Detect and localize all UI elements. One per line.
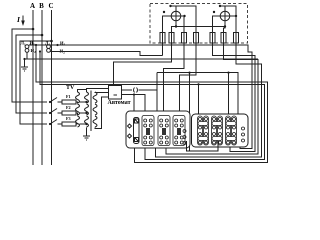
terminal groups box1: [142, 116, 186, 146]
junction bus A tap: [32, 28, 35, 31]
wire coil1 down: [162, 43, 164, 56]
wire TV sec2 to breaker: [95, 91, 109, 94]
meter case dashed: [150, 4, 248, 44]
mount hole 2: [128, 134, 132, 138]
junction CT2 I1: [56, 44, 58, 46]
wire box2 drops: [198, 84, 200, 136]
inner strip: [134, 118, 140, 144]
wire TV sec1 to breaker: [87, 89, 109, 93]
ground CT: [21, 66, 28, 68]
wire coil7 down: [156, 43, 262, 157]
meter internal wires element1: [163, 16, 170, 33]
TV neutral stubs: [80, 101, 87, 103]
wire voltage P2: [40, 52, 265, 160]
svg-text:F3: F3: [66, 116, 71, 121]
meter coil 1: [160, 33, 165, 44]
wire coil6 down: [166, 43, 258, 155]
svg-text:F2: F2: [66, 105, 71, 110]
wire fuse2 to TV: [76, 113, 78, 116]
wire to ground CT: [24, 59, 26, 67]
terminal group 1 box1: [142, 116, 154, 146]
CT2 secondary winding: [47, 45, 51, 49]
wire breaker out 1b: [139, 90, 158, 120]
wire tap B: [16, 35, 47, 113]
wire fuse3 to TV: [76, 123, 78, 125]
wire coil5 down: [213, 43, 256, 152]
meter element 2: [220, 11, 230, 21]
svg-text:И2: И2: [31, 48, 37, 54]
ground TV: [83, 135, 90, 137]
meter coil 7: [234, 33, 239, 44]
wire coil3 down: [164, 43, 185, 129]
wire fuse1 to TV: [76, 102, 78, 104]
TV winding column 2: [85, 92, 89, 127]
terminal group 1 box2: [198, 116, 209, 145]
wire breaker out 1: [122, 89, 133, 91]
terminal group 2 box2: [212, 116, 223, 145]
junction P1: [35, 44, 37, 46]
switch S2: [50, 109, 57, 114]
wire breaker out 2: [122, 95, 146, 129]
svg-text:F1: F1: [66, 94, 71, 99]
connector: [134, 88, 138, 93]
wire common I2 grounded: [25, 58, 259, 60]
terminal group 3 box1: [173, 116, 185, 146]
TV primary top stub: [78, 90, 87, 93]
junction TV n1: [85, 101, 87, 103]
wire CT1 I2 down: [26, 52, 28, 59]
terminal group 2 box1: [158, 116, 170, 146]
svg-text:TV: TV: [66, 85, 75, 91]
test box 2: [192, 114, 249, 147]
wire breaker out 2 branch: [133, 95, 135, 118]
switch S3: [50, 120, 57, 125]
fuse F2: [62, 111, 76, 115]
meter coil 4: [194, 33, 199, 44]
CT1 secondary winding: [25, 45, 29, 49]
fuse F1: [62, 100, 76, 104]
TV winding column 1: [76, 92, 80, 127]
meter element 1: [171, 11, 181, 21]
junction bus B tap: [41, 34, 44, 37]
junction I2: [23, 58, 25, 60]
wire coil2 down: [114, 43, 172, 86]
wire voltage P1: [36, 45, 268, 163]
wire CT1 I1 long: [29, 45, 252, 149]
junction breaker out 2: [133, 93, 135, 95]
wire mid horizontal: [157, 73, 238, 136]
bus A wire: [32, 10, 34, 165]
meter coil 5: [210, 33, 215, 44]
terminal group 3 box2: [226, 116, 237, 145]
svg-text:B: B: [39, 2, 44, 10]
wire CT2 I1 long: [51, 52, 163, 56]
test box 1: [126, 111, 190, 148]
wire mid branch down: [228, 73, 230, 136]
wire bottom bridge: [187, 141, 219, 151]
TV winding column 3: [93, 92, 97, 127]
breaker box: [109, 86, 122, 100]
box1 right terminals: [183, 130, 186, 133]
meter coil 2: [169, 33, 174, 44]
wire tap C: [20, 41, 52, 124]
fuse F3: [62, 122, 76, 126]
junction P2: [39, 50, 41, 52]
junction bus C tap: [50, 40, 53, 43]
wire coil4 down: [180, 43, 197, 129]
wire TV sec2 return: [95, 97, 109, 129]
mount hole 1: [128, 124, 132, 128]
svg-text:A: A: [30, 2, 35, 10]
wire TV to ground: [86, 128, 88, 137]
wire mid to connector: [156, 73, 158, 90]
coil lead strokes: [162, 33, 164, 44]
junction TV n2: [85, 112, 87, 114]
bus C wire: [51, 10, 53, 165]
svg-text:Автомат: Автомат: [108, 100, 131, 106]
wire tap A: [12, 29, 47, 102]
switch S1: [50, 98, 57, 103]
meter coil 3: [182, 33, 187, 44]
polarity dots: [163, 11, 165, 13]
current arrow: [22, 16, 24, 24]
TV core: [90, 91, 92, 132]
box2 right terminals: [242, 127, 245, 130]
meter coil 6: [221, 33, 226, 44]
junction mid wire: [227, 72, 229, 74]
meter internal wires element2: [213, 16, 219, 33]
bus B wire: [41, 10, 43, 165]
junction TV n3: [85, 123, 87, 125]
meter common wire: [172, 27, 226, 33]
svg-text:C: C: [48, 2, 53, 10]
